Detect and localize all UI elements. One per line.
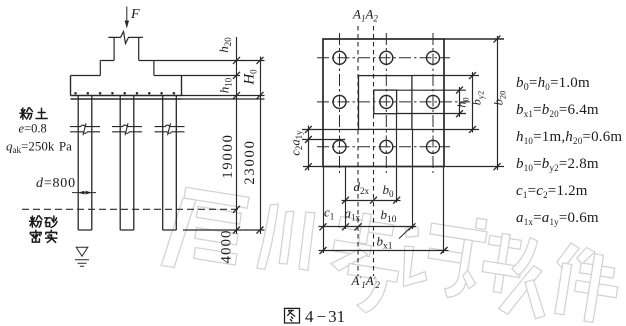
break mark pile 1 [70, 123, 100, 135]
bottom vertical extension lines [324, 114, 444, 253]
middle square (step) [359, 76, 412, 130]
svg-text:4000: 4000 [219, 230, 235, 264]
column top line with break [108, 32, 143, 44]
char shi of 密实 [46, 230, 57, 242]
svg-text:a1x: a1x [345, 206, 361, 223]
char sha of 粉砂 [45, 216, 57, 227]
svg-text:b10=by2=2.8m: b10=by2=2.8m [516, 156, 599, 173]
small square (column) [374, 90, 397, 114]
watermark char shi [396, 207, 489, 302]
svg-text:d=800: d=800 [36, 176, 76, 191]
watermark char mei [161, 185, 249, 277]
cap top [71, 75, 182, 77]
svg-text:A1A2: A1A2 [352, 7, 378, 24]
elevation dimension extension lines [154, 60, 265, 62]
water table symbol [76, 247, 88, 256]
svg-text:bx1=b20=6.4m: bx1=b20=6.4m [516, 102, 599, 119]
svg-text:h20: h20 [216, 37, 233, 53]
column sides [114, 37, 139, 60]
step 1 sides [100, 61, 154, 76]
svg-text:b10: b10 [381, 207, 397, 225]
watermark char kao [324, 209, 406, 316]
chinese glyph layer [20, 108, 299, 323]
svg-text:4−31: 4−31 [305, 307, 345, 326]
section line A1 [357, 26, 359, 276]
char tu of 图4-31 [285, 308, 300, 323]
rebar dots [74, 92, 175, 95]
svg-text:b0: b0 [383, 182, 395, 199]
break mark pile 2 [112, 123, 142, 135]
svg-text:e=0.8: e=0.8 [19, 122, 47, 136]
leader slash near b10 [399, 229, 410, 239]
force arrow F [126, 7, 128, 23]
ticks on dim lines [233, 57, 264, 234]
svg-text:19000: 19000 [220, 133, 236, 178]
d=800 dimension arrows [72, 192, 96, 194]
char tu(2) of 粉土 [36, 108, 47, 118]
char fen of 粉砂 [30, 216, 42, 227]
break mark pile 3 [155, 123, 185, 135]
bottom dim row 3 (bx1) [319, 250, 449, 252]
char fen(1) of 粉土 [20, 108, 32, 119]
svg-text:c1: c1 [324, 205, 334, 222]
watermark layer [161, 185, 623, 325]
svg-text:h10=1m,h20=0.6m: h10=1m,h20=0.6m [516, 129, 622, 146]
right dims h0, by2, b20 [397, 36, 505, 170]
watermark char chuan [257, 203, 315, 273]
pile 3 [163, 96, 177, 231]
step 1 top [100, 60, 154, 62]
svg-text:H0: H0 [242, 69, 259, 86]
cap sides [71, 76, 182, 96]
pile circles [333, 51, 440, 153]
svg-text:a1x=a1y=0.6m: a1x=a1y=0.6m [516, 210, 599, 227]
svg-text:h10: h10 [217, 77, 234, 93]
elevation dim line 2 [260, 57, 262, 235]
svg-text:b0=h0=1.0m: b0=h0=1.0m [516, 75, 590, 93]
watermark char ruan [476, 231, 557, 320]
watermark char jian [548, 241, 623, 325]
centerlines [317, 33, 470, 173]
bottom dim row 1 (d2x, b0) [342, 200, 401, 202]
svg-text:d2x: d2x [354, 179, 370, 196]
outer square (cap) [323, 39, 444, 167]
svg-text:F: F [130, 7, 140, 22]
svg-text:b20: b20 [492, 91, 508, 106]
svg-text:h0: h0 [455, 97, 471, 107]
cap bottom double line [71, 96, 182, 100]
soil boundary dashed line [22, 208, 240, 210]
svg-text:qak=250kPa: qak=250kPa [6, 139, 72, 156]
svg-text:23000: 23000 [242, 139, 258, 184]
left dim (c2, a1y) [302, 126, 359, 171]
svg-text:c2a1y: c2a1y [289, 130, 305, 156]
pile 2 [120, 96, 134, 231]
char mi of 密实 [30, 230, 41, 242]
pile 1 [78, 96, 92, 231]
svg-text:c1=c2=1.2m: c1=c2=1.2m [516, 183, 588, 200]
section line A2 [373, 26, 375, 276]
line art layer [22, 7, 504, 277]
elevation dim line 1 [236, 37, 238, 234]
bottom dim row 2 (c1, a1x, b10) [319, 226, 417, 228]
